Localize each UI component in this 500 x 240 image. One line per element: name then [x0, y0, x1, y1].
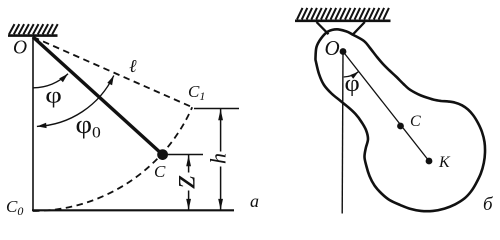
pendulum rod OC (thick) — [33, 37, 163, 155]
svg-text:C: C — [154, 162, 166, 181]
pivot dot O (right figure) — [340, 48, 347, 55]
svg-text:φ: φ — [345, 71, 360, 97]
svg-text:z: z — [165, 175, 202, 189]
bracket/pivot support V (right figure) — [317, 22, 329, 34]
point K dot (center of oscillation) — [426, 158, 433, 165]
pendulum bob C (filled ball) — [157, 149, 168, 160]
dimension z (vertical, broken by label) — [188, 155, 190, 173]
dimension h (vertical, broken by label) — [220, 109, 222, 152]
angle arc phi (with arrowhead at rod) — [33, 74, 68, 88]
axis line O to K — [343, 52, 429, 162]
wire: ground/base line from C0 rightward — [32, 209, 234, 211]
dashed rod position OC1, length l — [33, 37, 192, 107]
center of mass dot C (right figure) — [397, 123, 404, 130]
ceiling hatching (left figure) — [9, 24, 58, 34]
svg-text:a: a — [250, 191, 259, 211]
svg-text:h: h — [206, 153, 231, 164]
angle arc phi (right figure) — [344, 72, 359, 77]
svg-text:C0: C0 — [6, 197, 23, 218]
svg-text:C1: C1 — [188, 82, 205, 103]
svg-text:φ0: φ0 — [76, 110, 101, 141]
svg-text:б: б — [483, 194, 494, 215]
svg-text:K: K — [438, 154, 451, 171]
ceiling hatching (right figure) — [297, 8, 389, 20]
svg-text:C: C — [410, 113, 421, 130]
wire: vertical reference line O to C0 — [32, 37, 34, 211]
svg-text:φ: φ — [45, 82, 62, 108]
level line at C1 — [194, 108, 239, 110]
ceiling line (left figure) — [8, 34, 58, 37]
level line at C — [168, 154, 203, 156]
dashed trajectory arc C0 -> C -> C1 — [33, 107, 192, 211]
svg-text:O: O — [13, 38, 27, 59]
wire: vertical reference line from O (right figure) — [341, 52, 344, 214]
ceiling line (right figure) — [295, 19, 391, 22]
physical pendulum body outline — [315, 29, 485, 211]
svg-text:ℓ: ℓ — [129, 56, 137, 76]
angle arc phi0 (arrowheads both ends) — [37, 76, 114, 127]
svg-text:O: O — [325, 36, 340, 60]
